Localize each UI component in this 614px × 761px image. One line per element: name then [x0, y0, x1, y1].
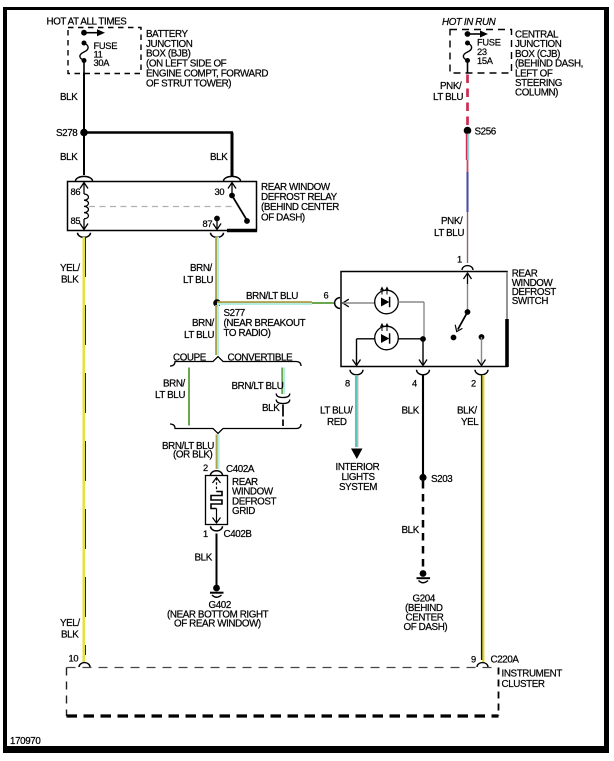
label BLK/YEL — [457, 406, 479, 429]
wire LED2 line — [357, 338, 424, 340]
svg-text:BRN/LT BLU: BRN/LT BLU — [232, 381, 284, 392]
wire YEL/BLK relay pin85 down to cluster pin10 — [84, 237, 86, 662]
label BRN/LT BLU coupe branch — [155, 379, 186, 402]
fuse F11 symbol — [80, 41, 88, 73]
switch pin 1 — [457, 255, 473, 285]
svg-text:YEL/: YEL/ — [60, 618, 80, 629]
wire BRN/LT BLU relay pin87 to S277 — [216, 237, 218, 301]
switch name text — [512, 269, 557, 308]
svg-text:OF DASH): OF DASH) — [261, 212, 305, 223]
label YEL/BLK upper — [60, 263, 80, 286]
connector cup pin 4 — [412, 370, 430, 389]
ground G204 label — [404, 594, 448, 634]
svg-text:BLK: BLK — [60, 152, 78, 163]
svg-text:BRN/: BRN/ — [163, 379, 186, 390]
wire PNK/LT BLU S256 to switch pin 1 — [467, 134, 469, 264]
instrument cluster name — [502, 669, 563, 691]
svg-text:LT BLU: LT BLU — [183, 275, 213, 286]
BJB location text — [146, 29, 268, 90]
svg-text:PNK/: PNK/ — [441, 216, 463, 227]
cluster pin 9 and connector C220A — [471, 655, 519, 668]
connector arc below pin 85 — [78, 233, 91, 238]
label HOT AT ALL TIMES — [47, 17, 128, 28]
svg-text:LT BLU: LT BLU — [433, 92, 463, 103]
wire BLK/YEL pin 2 to cluster pin 9 — [482, 375, 484, 662]
relay box outline — [68, 182, 258, 231]
defrost grid box — [206, 476, 228, 525]
ground G204 — [417, 570, 431, 583]
label BLK ground wire — [195, 553, 213, 564]
relay pin 86 arrow — [71, 183, 89, 198]
svg-text:BLK: BLK — [210, 152, 228, 163]
svg-text:BRN/: BRN/ — [190, 263, 213, 274]
merge brace — [170, 424, 301, 434]
wire BLK fuse11 to S278 — [83, 73, 85, 132]
svg-text:LT BLU: LT BLU — [434, 228, 464, 239]
instrument cluster dashed box — [67, 668, 499, 717]
label PNK/LT BLU upper — [433, 81, 463, 103]
svg-text:6: 6 — [324, 291, 329, 301]
svg-text:30A: 30A — [94, 58, 111, 68]
connector arc pin 86 — [76, 176, 93, 181]
label BLK — [60, 92, 78, 103]
svg-text:10: 10 — [69, 654, 79, 664]
label BLK dashed — [402, 525, 420, 536]
wire junction to pin 4 — [419, 339, 427, 366]
svg-text:YEL: YEL — [461, 417, 479, 428]
label LT BLU/RED — [320, 406, 353, 429]
svg-text:LT BLU: LT BLU — [155, 390, 185, 401]
svg-text:LT BLU: LT BLU — [184, 330, 214, 341]
node S277 — [213, 299, 305, 339]
label pin 6 — [324, 291, 329, 301]
label PNK/LT BLU lower — [434, 216, 464, 239]
svg-text:2: 2 — [471, 379, 476, 389]
relay name text — [261, 182, 339, 223]
label BLK convertible branch — [262, 403, 280, 414]
svg-text:C220A: C220A — [491, 655, 520, 666]
svg-text:C402B: C402B — [224, 529, 253, 540]
svg-text:COUPE: COUPE — [173, 353, 207, 364]
svg-text:S203: S203 — [431, 474, 453, 485]
connector C402A pin 2 — [203, 463, 255, 475]
defrost grid element — [211, 478, 222, 524]
label BLK left — [60, 152, 78, 163]
node S278 — [56, 128, 88, 139]
switch blade from pin 1 — [451, 284, 471, 340]
svg-text:1: 1 — [457, 255, 462, 265]
label BLK pin4 — [402, 406, 420, 417]
svg-text:BRN/LT BLU: BRN/LT BLU — [246, 291, 298, 302]
coupe/convertible split brace — [170, 353, 301, 367]
svg-text:(OR BLK): (OR BLK) — [173, 450, 213, 461]
label YEL/BLK lower — [60, 618, 80, 641]
svg-text:170970: 170970 — [10, 736, 41, 747]
svg-text:30: 30 — [215, 187, 225, 197]
svg-text:BLK: BLK — [402, 525, 420, 536]
battery junction box dashed outline — [68, 28, 141, 74]
svg-text:OF REAR WINDOW): OF REAR WINDOW) — [174, 619, 261, 630]
svg-text:HOT IN RUN: HOT IN RUN — [442, 17, 497, 28]
svg-text:INSTRUMENT: INSTRUMENT — [502, 669, 563, 680]
wire BLK S278 branch right — [84, 133, 233, 177]
wire BRN/LT BLU coupe branch — [188, 368, 190, 426]
svg-text:15A: 15A — [477, 56, 494, 66]
label BLK right — [210, 152, 228, 163]
svg-text:86: 86 — [71, 187, 81, 197]
svg-text:OF STRUT TOWER): OF STRUT TOWER) — [146, 78, 231, 89]
wire LT BLU/RED pin 8 — [351, 375, 363, 459]
fuse F23 symbol — [463, 41, 471, 74]
relay coil — [84, 194, 89, 219]
svg-text:SWITCH: SWITCH — [512, 296, 549, 307]
switch pin 6 arrow — [335, 298, 375, 309]
svg-text:87: 87 — [203, 219, 213, 229]
svg-text:1: 1 — [203, 529, 208, 539]
svg-text:85: 85 — [71, 216, 81, 226]
node S256 — [464, 127, 497, 138]
connector C402B pin 1 — [203, 526, 252, 540]
LED indicator 2 — [375, 324, 399, 350]
sheet number 170970 — [10, 736, 41, 747]
bus arrow in CJB — [465, 31, 488, 38]
cluster pin 10 — [69, 654, 91, 668]
wire LED1 to junction — [398, 302, 424, 339]
fuse F23 value labels — [477, 38, 501, 67]
LED indicator 1 — [375, 288, 399, 314]
svg-text:BLK: BLK — [402, 406, 420, 417]
fuse F11 value labels — [94, 41, 118, 68]
svg-text:BLK: BLK — [61, 630, 79, 641]
junction dot in switch — [420, 336, 426, 342]
svg-text:9: 9 — [471, 655, 476, 665]
relay pin 87 arrow — [203, 216, 222, 230]
wire BRN/LT BLU S277 to switch pin 6 — [217, 302, 335, 304]
svg-text:C402A: C402A — [226, 464, 255, 475]
label BRN/LT BLU (below S277 left) — [184, 318, 215, 341]
defrost switch box — [341, 272, 507, 368]
svg-text:FUSE: FUSE — [477, 38, 501, 48]
connector arc pin 30 — [224, 176, 241, 181]
wire BLK S278 down to relay pin 86 — [83, 133, 85, 176]
svg-text:S278: S278 — [56, 128, 78, 139]
wire LED2 to pin 8 — [353, 339, 361, 366]
defrost grid name — [232, 477, 277, 517]
svg-text:BRN/: BRN/ — [192, 318, 215, 329]
svg-text:BLK: BLK — [61, 275, 79, 286]
label HOT IN RUN — [442, 17, 497, 28]
wire BRN/LT BLU convertible branch — [282, 368, 284, 395]
svg-text:4: 4 — [412, 379, 417, 389]
svg-text:HOT AT ALL TIMES: HOT AT ALL TIMES — [47, 17, 128, 28]
svg-text:BLK/: BLK/ — [457, 406, 477, 417]
wire BLK pin 4 to S203 — [422, 375, 424, 475]
svg-text:TO RADIO): TO RADIO) — [224, 328, 271, 339]
connector cup pin 8 — [345, 370, 363, 389]
ground G402 — [210, 585, 224, 598]
inline connector on convertible branch — [276, 394, 290, 404]
label BRN/LT BLU convertible branch — [232, 381, 284, 392]
wire BRN/LT BLU to C402A — [217, 435, 219, 470]
svg-text:2: 2 — [203, 463, 208, 473]
label BRN/LT BLU (above S277) — [183, 263, 213, 286]
relay actuation dashed link — [89, 206, 233, 208]
ground G402 label — [167, 600, 269, 630]
svg-text:BLK: BLK — [195, 553, 213, 564]
relay pin 30 arrow — [215, 183, 237, 198]
wire BLK dashed S203 to G204 — [422, 481, 425, 570]
bus arrow in BJB — [81, 29, 105, 36]
relay pin 85 arrow — [71, 216, 89, 230]
svg-text:CONVERTIBLE: CONVERTIBLE — [228, 353, 294, 364]
svg-text:LT BLU/: LT BLU/ — [320, 406, 353, 417]
wire BRN/LT BLU S277 down to split — [216, 305, 218, 355]
svg-text:PNK/: PNK/ — [440, 81, 462, 92]
label BRN/LT BLU horizontal — [246, 291, 298, 302]
interior lights system text — [336, 462, 380, 493]
svg-text:GRID: GRID — [232, 506, 255, 517]
svg-text:SYSTEM: SYSTEM — [339, 482, 377, 493]
svg-text:RED: RED — [327, 417, 347, 428]
svg-text:8: 8 — [345, 379, 350, 389]
connector cup pin 2 — [471, 370, 488, 389]
relay switch blade — [229, 193, 250, 224]
CJB location text — [515, 30, 583, 99]
label BRN/LT BLU (OR BLK) — [162, 441, 214, 461]
connector arc below pin 87 — [211, 233, 224, 238]
switch contact to pin 2 — [478, 334, 486, 365]
svg-text:COLUMN): COLUMN) — [515, 88, 558, 99]
svg-text:YEL/: YEL/ — [60, 263, 80, 274]
node S203 — [419, 474, 453, 485]
svg-text:CLUSTER: CLUSTER — [502, 679, 545, 690]
central junction box dashed outline — [450, 30, 512, 74]
wire PNK/LT BLU dashed fuse23 to S256 — [466, 75, 469, 128]
svg-text:OF DASH): OF DASH) — [404, 622, 448, 633]
svg-text:BLK: BLK — [262, 403, 280, 414]
svg-text:BLK: BLK — [60, 92, 78, 103]
svg-text:S256: S256 — [475, 127, 497, 138]
wire BLK grid to G402 — [216, 534, 218, 586]
wire BLK convertible branch lower — [282, 405, 284, 427]
